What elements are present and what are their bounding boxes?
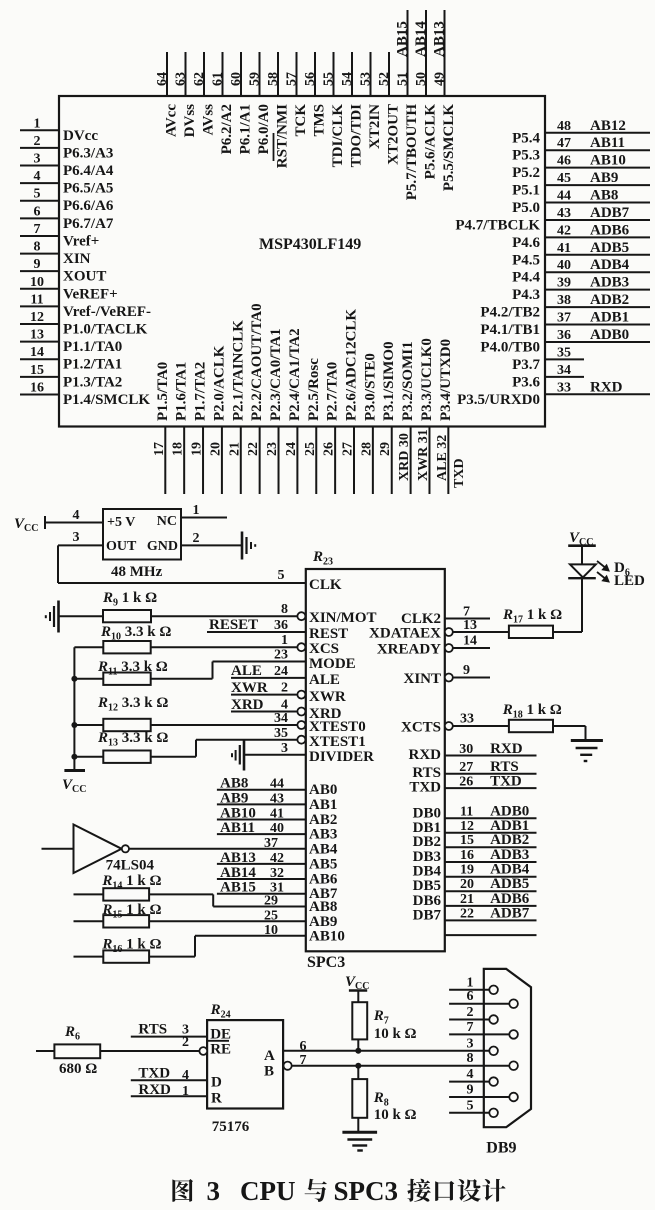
net RTS wire to 75176 pin 3 DE [131, 1022, 231, 1043]
svg-text:7: 7 [467, 1020, 474, 1035]
svg-text:DB5: DB5 [413, 878, 441, 894]
resistor R13 3.3k [74, 730, 196, 763]
SPC3 pin 32 AB6 net AB14 [217, 865, 338, 888]
MSP430 right pin 48 P5.4 net AB12 [512, 118, 650, 147]
svg-text:AB5: AB5 [309, 856, 337, 872]
SPC3 pin 20 DB5 net ADB5 [413, 876, 537, 894]
svg-text:P2.4/CA1/TA2: P2.4/CA1/TA2 [287, 328, 303, 421]
svg-text:AB10: AB10 [590, 153, 626, 169]
svg-text:P3.1/SIMO0: P3.1/SIMO0 [381, 341, 397, 421]
svg-text:1: 1 [34, 116, 41, 131]
wire below DB7 [445, 934, 537, 936]
resistor R6 680 ohm [36, 1024, 100, 1077]
svg-text:4: 4 [182, 1068, 189, 1083]
SPC3 pin 16 DB3 net ADB3 [413, 847, 537, 865]
svg-text:15: 15 [460, 833, 474, 848]
svg-text:AB8: AB8 [309, 899, 337, 915]
svg-text:D: D [211, 1075, 222, 1091]
ground (DIVIDER, sideways) and wire to SPC3 pin 3 DIVIDER [232, 739, 374, 771]
svg-text:45: 45 [557, 171, 571, 186]
MSP430 pin 13 P1.1/TA0 [20, 328, 122, 356]
75176 pin 2 RE (inverted) [182, 1035, 231, 1058]
MSP430 top pin 51 P5.7/TBOUTH [395, 10, 421, 200]
IC U1 MSP430LF149 chip body [59, 96, 545, 427]
svg-text:XIN/MOT: XIN/MOT [309, 610, 377, 626]
svg-text:DB2: DB2 [413, 834, 441, 850]
svg-text:12: 12 [30, 310, 44, 325]
svg-text:ADB7: ADB7 [590, 205, 630, 221]
svg-text:P1.0/TACLK: P1.0/TACLK [63, 322, 148, 338]
svg-text:AB10: AB10 [309, 928, 345, 944]
svg-text:P2.3/CA0/TA1: P2.3/CA0/TA1 [268, 328, 284, 421]
svg-text:17: 17 [152, 442, 167, 456]
MSP430 bottom pin 17 P1.5/TA0 [152, 362, 171, 494]
75176 output A pin 6 wire to DB9 pin 3 [264, 1039, 489, 1064]
ground (R9 left, sideways) [46, 601, 59, 633]
svg-text:13: 13 [30, 328, 44, 343]
svg-text:10 k Ω: 10 k Ω [374, 1107, 417, 1123]
MSP430 right pin 38 P4.2/TB2 net ADB2 [480, 292, 650, 321]
svg-text:DIVIDER: DIVIDER [309, 749, 374, 765]
svg-text:680 Ω: 680 Ω [59, 1061, 97, 1077]
SPC3 pin 44 AB0 net AB8 [217, 776, 337, 799]
svg-text:P6.4/A4: P6.4/A4 [63, 163, 114, 179]
SPC3 pin 14 XREADY [377, 634, 490, 658]
svg-text:24: 24 [284, 442, 299, 456]
svg-text:CLK: CLK [309, 577, 342, 593]
svg-text:AB13: AB13 [432, 21, 448, 57]
MSP430 pin 2 P6.3/A3 [20, 134, 113, 162]
DB9 pin 8 [467, 1051, 518, 1070]
svg-text:30: 30 [459, 742, 473, 757]
svg-text:REST: REST [309, 626, 348, 642]
svg-text:P1.1/TA0: P1.1/TA0 [63, 339, 122, 355]
svg-text:13: 13 [463, 618, 477, 633]
svg-text:AB1: AB1 [309, 797, 337, 813]
svg-text:40: 40 [557, 258, 571, 273]
svg-text:P4.1/TB1: P4.1/TB1 [480, 322, 540, 338]
svg-text:75176: 75176 [212, 1119, 250, 1135]
resistor R7 10k [352, 1002, 416, 1051]
MSP430 bottom pin 21 P2.1/TAINCLK [227, 320, 246, 494]
MSP430 bottom pin ALE 32 P3.4/UTXD0 [435, 339, 454, 494]
svg-text:37: 37 [557, 311, 571, 326]
resistor R18 1k [502, 702, 586, 739]
MSP430 bottom pin 27 P2.6/ADC12CLK [341, 309, 360, 494]
SPC3 pin 42 AB5 net AB13 [217, 850, 337, 873]
MSP430 right pin 41 P4.5 net ADB5 [512, 240, 650, 269]
svg-text:22: 22 [246, 442, 261, 456]
svg-text:ADB6: ADB6 [590, 222, 630, 238]
svg-text:41: 41 [557, 241, 571, 256]
svg-text:P2.0/ACLK: P2.0/ACLK [211, 345, 227, 421]
svg-text:21: 21 [227, 442, 242, 456]
SPC3 pin 9 XINT [403, 663, 490, 687]
MSP430 right pin 46 P5.2 net AB10 [512, 153, 650, 182]
svg-text:62: 62 [192, 72, 207, 86]
svg-text:ALE: ALE [309, 672, 340, 688]
MSP430 top pin 50 P5.6/ACLK [413, 10, 439, 179]
junction A/R7 [355, 1048, 361, 1054]
svg-text:VeREF+: VeREF+ [63, 286, 118, 302]
svg-text:DB9: DB9 [486, 1140, 516, 1157]
svg-text:AB11: AB11 [590, 135, 625, 151]
svg-text:RE: RE [210, 1042, 231, 1058]
svg-text:P6.3/A3: P6.3/A3 [63, 145, 113, 161]
svg-text:59: 59 [248, 72, 263, 86]
MSP430 right pin 33 P3.5/URXD0 net RXD [457, 379, 650, 408]
junction B/R8 [355, 1063, 361, 1069]
svg-text:R13 3.3 k Ω: R13 3.3 k Ω [97, 730, 168, 749]
svg-text:6: 6 [300, 1039, 307, 1054]
svg-text:RXD: RXD [409, 747, 442, 763]
SPC3 pin 21 DB6 net ADB6 [413, 891, 537, 909]
svg-text:P3.4/UTXD0: P3.4/UTXD0 [438, 339, 454, 421]
MSP430 pin 4 P6.5/A5 [20, 169, 113, 197]
svg-text:XINT: XINT [403, 671, 441, 687]
MSP430 top pin 62 AVss [192, 52, 217, 135]
svg-text:P5.1: P5.1 [512, 183, 540, 199]
svg-text:11: 11 [30, 292, 43, 307]
svg-text:P4.4: P4.4 [512, 270, 540, 286]
75176 output B pin 7 (inverted) wire to DB9 pin 8 [264, 1053, 509, 1080]
svg-text:A: A [264, 1048, 275, 1064]
wire R11 up to SPC3 pin 23 MODE [213, 648, 356, 679]
svg-text:P1.5/TA0: P1.5/TA0 [155, 362, 171, 421]
svg-text:AB0: AB0 [309, 782, 337, 798]
SPC3 pin 41 AB2 net AB10 [217, 806, 337, 829]
svg-text:8: 8 [467, 1051, 474, 1066]
svg-text:18: 18 [171, 442, 186, 456]
wire 74LS04 output to SPC3 pin 37 [129, 848, 306, 850]
svg-text:R10 3.3 k Ω: R10 3.3 k Ω [100, 624, 171, 643]
node RESET / wire to SPC3 pin 36 REST [207, 617, 348, 642]
ground (R18) [571, 741, 603, 762]
resistor R14 1k [74, 873, 306, 907]
wire R9 to SPC3 pin 8 XIN/MOT [151, 602, 377, 626]
svg-text:P6.1/A1: P6.1/A1 [238, 104, 254, 154]
svg-text:2: 2 [182, 1035, 189, 1050]
connector DB9 shell [484, 969, 531, 1127]
svg-text:P5.0: P5.0 [512, 200, 540, 216]
resistor R11 3.3k [74, 659, 212, 685]
svg-text:XWR: XWR [309, 689, 346, 705]
svg-text:9: 9 [467, 1083, 474, 1098]
svg-text:61: 61 [211, 72, 226, 86]
svg-text:ADB4: ADB4 [590, 257, 630, 273]
svg-text:74LS04: 74LS04 [106, 858, 155, 874]
svg-text:48: 48 [557, 119, 571, 134]
svg-text:P5.7/TBOUTH: P5.7/TBOUTH [404, 104, 420, 201]
svg-text:P6.5/A5: P6.5/A5 [63, 181, 113, 197]
svg-text:R11 3.3 k Ω: R11 3.3 k Ω [97, 659, 168, 678]
MSP430 right pin 42 P4.6 net ADB6 [512, 222, 650, 251]
svg-text:P4.7/TBCLK: P4.7/TBCLK [455, 217, 540, 233]
svg-text:P2.6/ADC12CLK: P2.6/ADC12CLK [344, 309, 360, 421]
svg-text:XWR 31: XWR 31 [416, 429, 431, 481]
svg-text:ADB5: ADB5 [490, 876, 529, 892]
svg-text:3: 3 [34, 152, 41, 167]
MSP430 right pin 40 P4.4 net ADB4 [512, 257, 650, 286]
svg-text:SPC3: SPC3 [307, 954, 345, 971]
SPC3 pin 15 DB2 net ADB2 [413, 832, 537, 850]
svg-text:P4.3: P4.3 [512, 287, 540, 303]
svg-text:XRD 30: XRD 30 [397, 433, 412, 481]
MSP430 pin 10 VeREF+ [20, 275, 118, 303]
svg-text:9: 9 [34, 257, 41, 272]
svg-text:AB4: AB4 [309, 841, 338, 857]
svg-text:P4.6: P4.6 [512, 235, 540, 251]
svg-text:10: 10 [30, 275, 44, 290]
svg-text:R15 1 k Ω: R15 1 k Ω [101, 902, 161, 921]
svg-text:44: 44 [557, 189, 571, 204]
svg-text:8: 8 [34, 240, 41, 255]
svg-text:29: 29 [378, 442, 393, 456]
power Vcc (R7) [345, 974, 369, 1002]
SPC3 pin 40 AB3 net AB11 [217, 820, 337, 843]
svg-text:22: 22 [460, 906, 474, 921]
resistor R9 1k [58, 590, 157, 622]
svg-text:ADB0: ADB0 [590, 327, 629, 343]
MSP430 pin 11 Vref-/VeREF- [20, 292, 151, 320]
svg-text:XOUT: XOUT [63, 269, 106, 285]
svg-text:TDO/TDI: TDO/TDI [349, 104, 365, 168]
net XRD wire to SPC3 pin 4 [231, 697, 342, 722]
svg-text:ADB2: ADB2 [590, 292, 629, 308]
transceiver 75176 R24 [207, 1002, 283, 1135]
wire oscillator pin 2 GND [181, 531, 242, 546]
svg-text:24: 24 [274, 664, 288, 679]
MSP430 pin 7 Vref+ [20, 222, 99, 250]
svg-text:TXD: TXD [138, 1066, 170, 1082]
MSP430 right pin 39 P4.3 net ADB3 [512, 275, 650, 304]
svg-text:P3.5/URXD0: P3.5/URXD0 [457, 392, 540, 408]
svg-text:P1.3/TA2: P1.3/TA2 [63, 374, 122, 390]
svg-text:P5.2: P5.2 [512, 165, 540, 181]
MSP430 pin 8 XIN [20, 240, 91, 268]
power Vcc (oscillator supply) [14, 516, 45, 534]
svg-text:3: 3 [207, 1176, 221, 1206]
svg-text:R18 1 k Ω: R18 1 k Ω [502, 702, 562, 721]
svg-text:RXD: RXD [490, 741, 523, 757]
svg-text:B: B [264, 1064, 274, 1080]
svg-text:1: 1 [467, 975, 474, 990]
svg-text:2: 2 [34, 134, 41, 149]
svg-text:P3.2/SOMI1: P3.2/SOMI1 [400, 341, 416, 421]
svg-text:19: 19 [190, 442, 205, 456]
SPC3 pin 7 CLK2 [401, 605, 490, 628]
SPC3 pin 37 AB4 [264, 836, 338, 858]
resistor R8 10k [352, 1066, 416, 1132]
wire R13 up to SPC3 pin 35 XTEST1 [196, 726, 366, 757]
svg-text:RESET: RESET [209, 617, 258, 633]
svg-text:2: 2 [467, 1005, 474, 1020]
DB9 pin 6 [449, 989, 518, 1008]
svg-text:1: 1 [182, 1084, 189, 1099]
svg-text:3: 3 [281, 741, 288, 756]
wire oscillator pin 1 NC [181, 503, 227, 518]
svg-text:35: 35 [557, 345, 571, 360]
MSP430 right pin 43 P4.7/TBCLK net ADB7 [455, 205, 650, 234]
svg-text:63: 63 [174, 72, 189, 86]
svg-text:TXD: TXD [409, 780, 441, 796]
svg-text:CPU: CPU [240, 1176, 296, 1206]
svg-text:OUT: OUT [106, 539, 137, 554]
svg-text:7: 7 [300, 1053, 307, 1068]
svg-text:5: 5 [34, 187, 41, 202]
DB9 pin 2 [449, 1005, 498, 1024]
svg-text:5: 5 [467, 1098, 474, 1113]
svg-text:53: 53 [359, 72, 374, 86]
svg-text:7: 7 [34, 222, 41, 237]
MSP430 top pin 57 TCK [285, 52, 310, 137]
MSP430 top pin 61 P6.2/A2 [211, 52, 236, 154]
ground (R8) [342, 1132, 377, 1150]
MSP430 pin 15 P1.3/TA2 [20, 363, 122, 391]
svg-text:XT2OUT: XT2OUT [386, 104, 402, 165]
svg-text:AB12: AB12 [590, 118, 626, 134]
svg-text:4: 4 [467, 1067, 474, 1082]
svg-text:26: 26 [322, 442, 337, 456]
resistor R10 3.3k [74, 624, 171, 653]
svg-text:P2.5/Rosc: P2.5/Rosc [306, 358, 322, 421]
MSP430 right pin 34 P3.6 [512, 363, 584, 391]
svg-text:XIN: XIN [63, 251, 91, 267]
svg-text:P3.3/UCLK0: P3.3/UCLK0 [419, 338, 435, 421]
svg-text:4: 4 [73, 508, 80, 523]
svg-text:XREADY: XREADY [377, 642, 441, 658]
svg-text:34: 34 [274, 711, 288, 726]
MSP430 top pin 64 AVcc [155, 52, 180, 137]
svg-text:19: 19 [460, 863, 474, 878]
svg-text:ADB5: ADB5 [590, 240, 629, 256]
svg-text:35: 35 [274, 726, 288, 741]
svg-text:36: 36 [557, 328, 571, 343]
SPC3 pin 33 XCTS [401, 712, 509, 736]
svg-text:P5.3: P5.3 [512, 148, 540, 164]
svg-text:DB3: DB3 [413, 849, 441, 865]
svg-text:P1.2/TA1: P1.2/TA1 [63, 357, 122, 373]
MSP430 right pin 45 P5.1 net AB9 [512, 170, 650, 199]
MSP430 bottom pin XWR 31 P3.3/UCLK0 [416, 338, 435, 494]
svg-text:P2.7/TA0: P2.7/TA0 [325, 362, 341, 421]
SPC3 pin 26 TXD net TXD [409, 774, 536, 796]
power Vcc (LED) [568, 530, 596, 564]
MSP430 top pin 54 TDO/TDI [340, 52, 365, 167]
svg-text:P2.2/CAOUT/TA0: P2.2/CAOUT/TA0 [249, 303, 265, 421]
ground (oscillator GND, sideways right) [242, 532, 255, 560]
svg-text:6: 6 [467, 989, 474, 1004]
svg-text:RST/NMI: RST/NMI [275, 104, 291, 168]
svg-text:28: 28 [359, 442, 374, 456]
MSP430 bottom pin 20 P2.0/ACLK [208, 345, 227, 494]
svg-text:ADB2: ADB2 [490, 832, 529, 848]
DB9 pin 7 [449, 1020, 518, 1039]
svg-text:3: 3 [73, 530, 80, 545]
svg-text:43: 43 [557, 206, 571, 221]
svg-text:57: 57 [285, 72, 300, 86]
MSP430 top pin 58 RST/NMI [266, 52, 291, 168]
svg-text:20: 20 [460, 877, 474, 892]
power rail Vcc (pull-up resistors) [62, 647, 86, 795]
svg-text:P5.4: P5.4 [512, 130, 540, 146]
svg-text:2: 2 [281, 681, 288, 696]
resistor R17 1k [502, 579, 582, 639]
svg-text:27: 27 [459, 760, 473, 775]
svg-text:AVcc: AVcc [164, 104, 180, 137]
wire Vcc to oscillator pin 4 [45, 508, 103, 523]
SPC3 pin 11 DB0 net ADB0 [413, 803, 537, 821]
MSP430 bottom pin 19 P1.7/TA2 [190, 362, 209, 494]
svg-text:R9 1 k Ω: R9 1 k Ω [102, 590, 157, 609]
SPC3 pin 30 RXD net RXD [409, 741, 537, 763]
svg-text:47: 47 [557, 136, 571, 151]
svg-text:20: 20 [208, 442, 223, 456]
svg-text:AB15: AB15 [395, 21, 411, 57]
svg-text:54: 54 [340, 72, 355, 86]
svg-text:P6.2/A2: P6.2/A2 [219, 104, 235, 154]
svg-text:49: 49 [433, 72, 448, 86]
svg-text:9: 9 [463, 663, 470, 678]
svg-text:48 MHz: 48 MHz [111, 564, 163, 580]
svg-text:26: 26 [459, 775, 473, 790]
DB9 pin 5 [449, 1098, 498, 1117]
MSP430 bottom pin 28 P3.0/STE0 [359, 353, 378, 494]
svg-text:27: 27 [341, 442, 356, 456]
svg-text:3: 3 [467, 1036, 474, 1051]
svg-text:XT2IN: XT2IN [367, 104, 383, 149]
svg-text:AVss: AVss [201, 104, 217, 136]
MSP430 top pin 55 TDI/CLK [322, 52, 347, 167]
svg-text:ADB7: ADB7 [490, 905, 530, 921]
svg-text:MODE: MODE [309, 656, 356, 672]
svg-text:P2.1/TAINCLK: P2.1/TAINCLK [230, 320, 246, 421]
svg-text:14: 14 [30, 345, 44, 360]
svg-text:P6.6/A6: P6.6/A6 [63, 198, 114, 214]
svg-text:6: 6 [34, 204, 41, 219]
svg-text:AB8: AB8 [590, 188, 618, 204]
svg-text:16: 16 [30, 380, 44, 395]
svg-text:DB7: DB7 [413, 907, 442, 923]
SPC3 pin 27 RTS net RTS [412, 759, 536, 781]
MSP430 top pin 59 P6.0/A0 [248, 52, 273, 154]
svg-text:DVss: DVss [182, 104, 198, 138]
svg-text:P5.5/SMCLK: P5.5/SMCLK [441, 104, 457, 191]
MSP430 bottom pin 24 P2.4/CA1/TA2 [284, 328, 303, 494]
MSP430 right pin 37 P4.1/TB1 net ADB1 [480, 310, 650, 339]
svg-text:1: 1 [193, 503, 200, 518]
svg-text:XCS: XCS [309, 641, 339, 657]
MSP430 bottom pin 22 P2.2/CAOUT/TA0 [246, 303, 265, 494]
MSP430 pin 14 P1.2/TA1 [20, 345, 122, 373]
svg-text:P1.6/TA1: P1.6/TA1 [174, 362, 190, 421]
resistor R15 1k [74, 902, 306, 928]
svg-text:P6.0/A0: P6.0/A0 [256, 104, 272, 154]
DB9 pin 1 [449, 975, 498, 994]
wire oscillator OUT pin 3 to SPC3 CLK pin 5 [58, 530, 306, 583]
svg-text:XTEST1: XTEST1 [309, 734, 366, 750]
svg-text:38: 38 [557, 293, 571, 308]
svg-text:21: 21 [460, 892, 474, 907]
svg-text:33: 33 [460, 712, 474, 727]
svg-text:P3.6: P3.6 [512, 374, 540, 390]
svg-text:ADB1: ADB1 [590, 310, 629, 326]
svg-text:R6: R6 [64, 1024, 84, 1043]
MSP430 pin 9 XOUT [20, 257, 106, 285]
svg-text:SPC3: SPC3 [334, 1176, 399, 1206]
MSP430 right pin 35 P3.7 [512, 345, 584, 373]
svg-text:ADB3: ADB3 [490, 847, 529, 863]
